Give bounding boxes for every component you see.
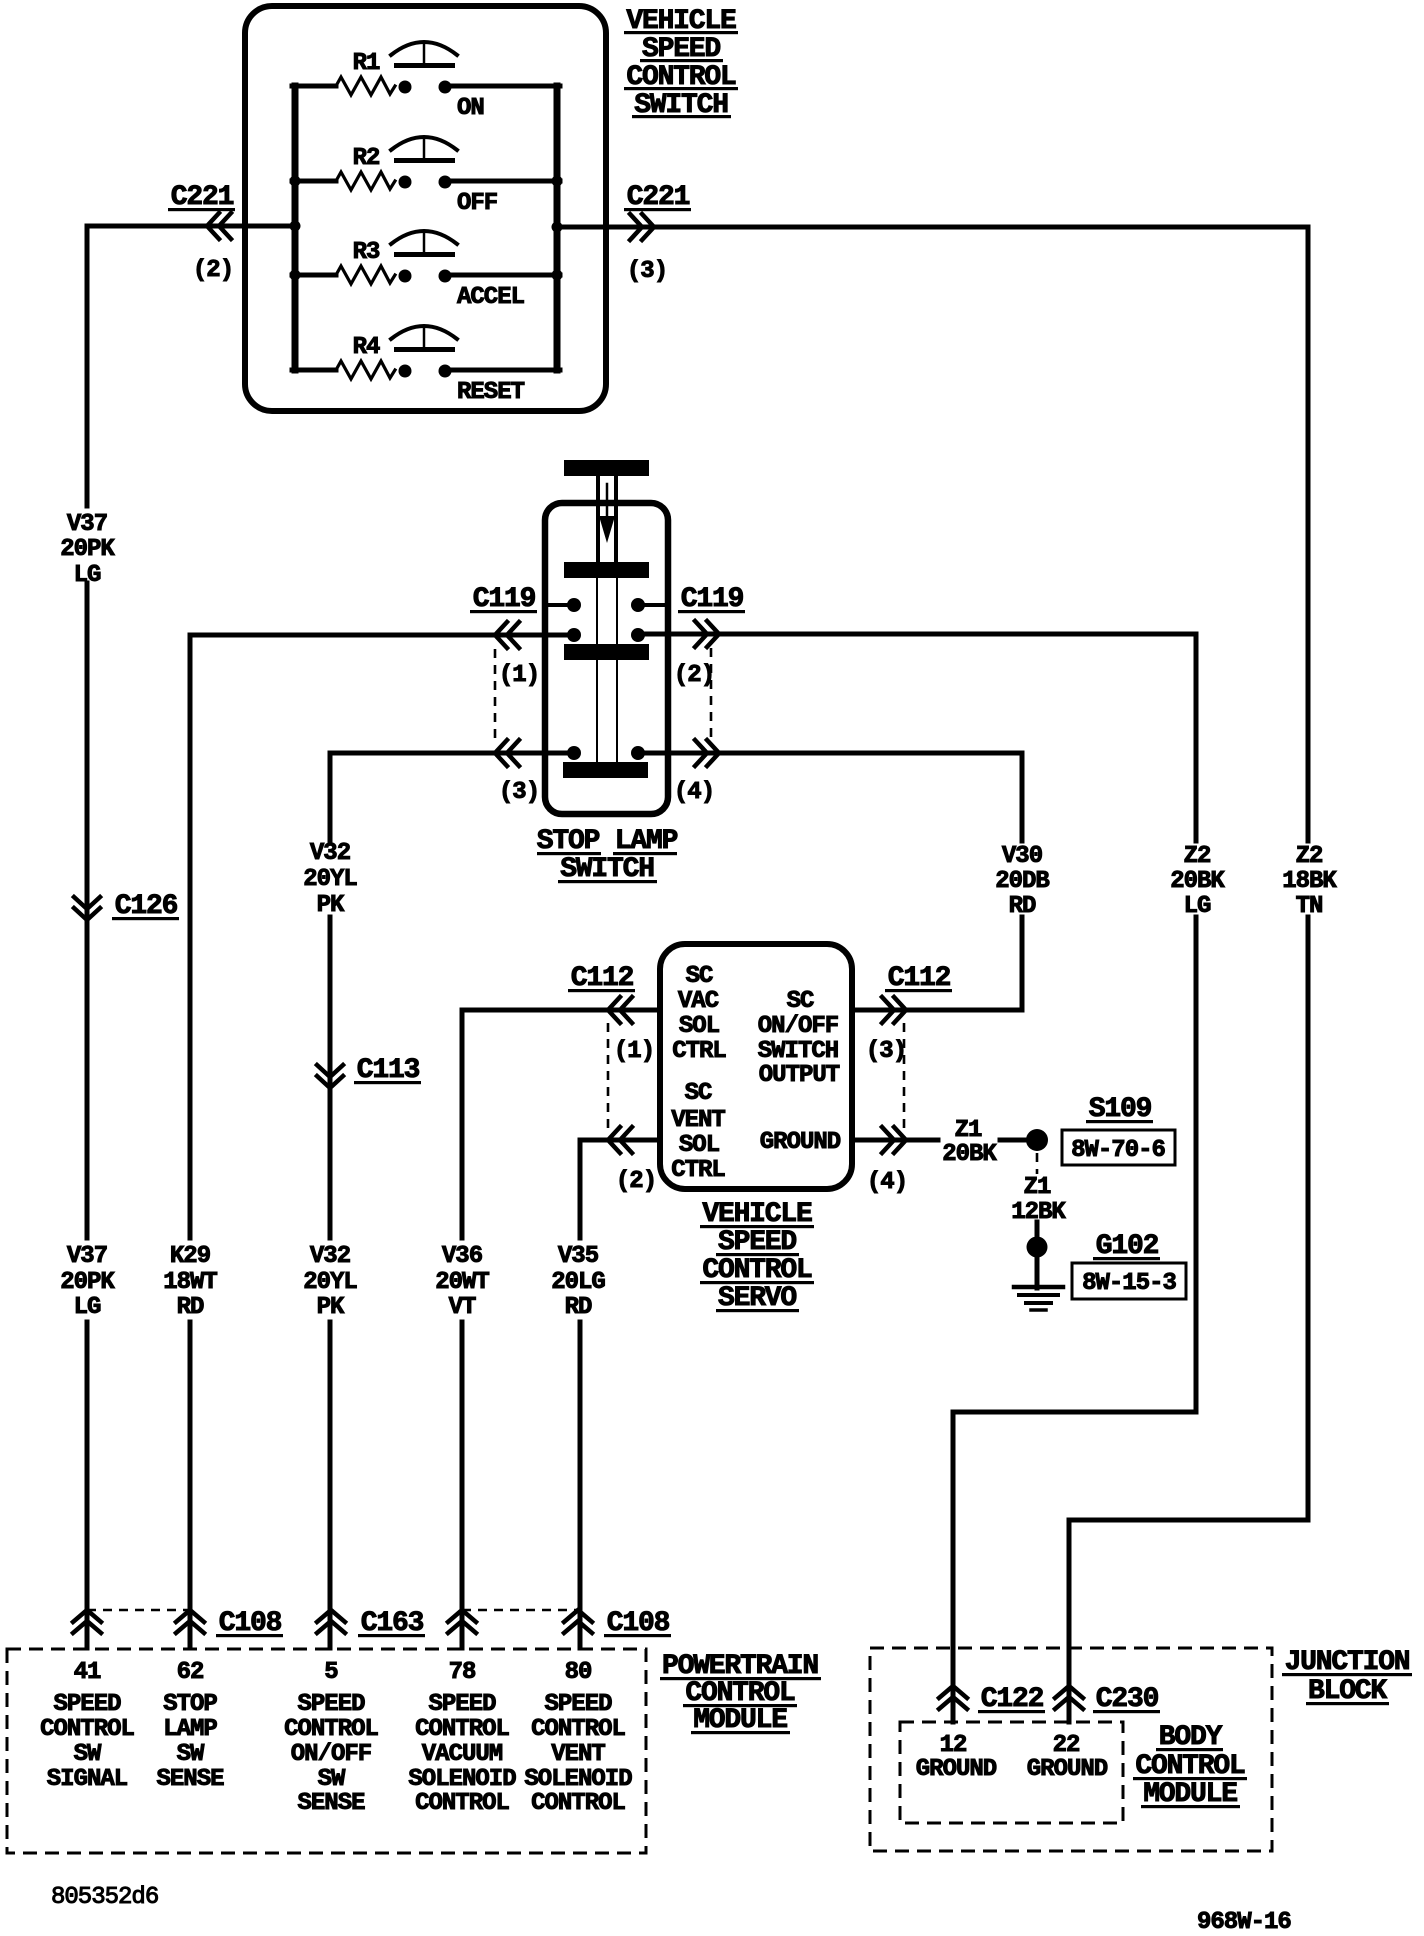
svg-text:(3): (3) — [499, 779, 539, 806]
label C119 left — [470, 584, 537, 615]
label pin 41 SPEED CONTROL SW SIGNAL — [40, 1659, 134, 1793]
connector chevrons pin 80 — [564, 1610, 592, 1633]
svg-text:VENT: VENT — [671, 1107, 725, 1134]
powertrain control module box — [7, 1649, 646, 1853]
svg-text:80: 80 — [565, 1659, 592, 1686]
wire R2 left — [292, 179, 336, 184]
svg-text:12: 12 — [940, 1732, 967, 1759]
label Z2 20BK LG — [1170, 843, 1225, 920]
wire V36 lower — [460, 1322, 465, 1648]
label G102 — [1093, 1231, 1160, 1262]
svg-text:SPEED: SPEED — [53, 1691, 121, 1718]
svg-text:GROUND: GROUND — [916, 1756, 997, 1783]
svg-text:(3): (3) — [627, 258, 667, 285]
svg-text:SOL: SOL — [679, 1132, 720, 1159]
label SC VAC SOL CTRL — [672, 963, 726, 1065]
switch OFF actuator — [391, 137, 457, 163]
svg-text:R3: R3 — [353, 239, 380, 266]
wire Z2 20BK horizontal — [645, 634, 1196, 841]
wire Z1 to splice — [1000, 1138, 1026, 1143]
label pin 78 SPEED CONTROL VACUUM SOLENOID CONTROL — [408, 1659, 516, 1817]
svg-text:SC: SC — [685, 1080, 712, 1107]
svg-text:(1): (1) — [614, 1038, 654, 1065]
svg-text:GROUND: GROUND — [760, 1129, 841, 1156]
svg-text:LAMP: LAMP — [163, 1716, 217, 1743]
wire V32 horizontal — [330, 751, 567, 756]
ground G102 symbol — [1014, 1287, 1063, 1310]
svg-text:SOLENOID: SOLENOID — [408, 1766, 516, 1793]
label C122 — [978, 1684, 1045, 1715]
label BODY CONTROL MODULE — [1133, 1722, 1247, 1810]
svg-text:RD: RD — [565, 1294, 592, 1321]
connector C112 (2) — [608, 1127, 656, 1195]
connector chevrons pin 5 — [317, 1610, 345, 1633]
stop lamp switch contact bar middle — [564, 644, 649, 660]
svg-text:V35: V35 — [558, 1243, 599, 1270]
svg-text:SPEED: SPEED — [428, 1691, 496, 1718]
connector chevrons pin 62 — [176, 1610, 204, 1633]
label pin 5 SPEED CONTROL ON/OFF SW SENSE — [284, 1659, 378, 1817]
svg-text:Z2: Z2 — [1296, 843, 1323, 870]
splice S109 — [1026, 1129, 1048, 1151]
svg-text:V32: V32 — [310, 840, 350, 867]
connector C126 — [74, 891, 179, 922]
svg-text:Z1: Z1 — [1024, 1174, 1051, 1201]
label Z1 12BK — [1011, 1174, 1066, 1226]
svg-text:62: 62 — [177, 1659, 204, 1686]
svg-text:SC: SC — [686, 963, 713, 990]
wire R2 right — [450, 179, 560, 184]
label SC ON/OFF SWITCH OUTPUT — [758, 988, 840, 1089]
wire Z1 to ground — [1035, 1222, 1040, 1288]
svg-text:SPEED: SPEED — [297, 1691, 365, 1718]
junction dots right bus — [552, 176, 563, 281]
svg-text:GROUND: GROUND — [1027, 1756, 1108, 1783]
label C108 — [216, 1608, 283, 1639]
svg-text:CONTROL: CONTROL — [284, 1716, 378, 1743]
svg-text:20WT: 20WT — [435, 1269, 489, 1296]
label SC VENT SOL CTRL — [671, 1080, 725, 1184]
svg-text:SOLENOID: SOLENOID — [524, 1766, 632, 1793]
label pin 22 GROUND — [1027, 1732, 1108, 1783]
label C112 right — [885, 963, 952, 994]
connector C119 (1)-(3) link — [494, 649, 497, 741]
svg-text:CONTROL: CONTROL — [415, 1790, 509, 1817]
wire K29 horizontal — [190, 633, 567, 638]
svg-text:SW: SW — [318, 1766, 346, 1793]
connector chevrons C122 — [939, 1686, 967, 1709]
svg-text:VENT: VENT — [551, 1741, 605, 1768]
wire V32 lower — [328, 1322, 333, 1648]
junction dots left bus — [290, 176, 301, 281]
wire R4 left — [292, 368, 336, 373]
svg-text:SW: SW — [74, 1741, 102, 1768]
svg-text:20BK: 20BK — [942, 1141, 997, 1168]
wire V37 middle — [85, 583, 90, 1238]
svg-text:805352d6: 805352d6 — [51, 1884, 158, 1911]
label C108 right — [604, 1608, 671, 1639]
wire R3 left — [292, 273, 336, 278]
connector C112 (3)-(4) link — [903, 1023, 906, 1128]
switch ON actuator — [391, 42, 457, 68]
label K29 18WT RD — [163, 1243, 217, 1321]
svg-text:CONTROL: CONTROL — [415, 1716, 509, 1743]
wire V36 vertical — [460, 1010, 465, 1238]
switch OFF contacts — [399, 176, 452, 189]
resistor R3 — [336, 239, 395, 284]
wire Z1 ground stub — [852, 1138, 938, 1143]
wire V32 vertical upper — [328, 753, 333, 841]
switch ON contacts — [399, 81, 452, 94]
connector C221 (2) — [168, 182, 235, 284]
junction block box — [870, 1648, 1272, 1851]
svg-text:Z2: Z2 — [1184, 843, 1211, 870]
wire V35 lower — [578, 1322, 583, 1648]
wire V37 upper — [85, 226, 90, 506]
svg-text:20LG: 20LG — [551, 1269, 605, 1296]
label VEHICLE SPEED CONTROL SWITCH — [624, 6, 738, 121]
wire V37 lower — [85, 1322, 90, 1648]
svg-text:ON/OFF: ON/OFF — [291, 1741, 371, 1768]
label Z2 18BK TN — [1282, 843, 1337, 920]
svg-text:8W-15-3: 8W-15-3 — [1082, 1270, 1176, 1297]
stop lamp switch plunger shaft — [598, 476, 616, 562]
svg-text:20YL: 20YL — [303, 1269, 357, 1296]
wire K29 lower — [188, 1322, 193, 1648]
svg-text:SOL: SOL — [679, 1013, 720, 1040]
svg-text:5: 5 — [324, 1659, 338, 1686]
vehicle speed control servo box — [660, 944, 852, 1189]
resistor R4 — [336, 334, 395, 379]
wire K29 vertical — [188, 635, 193, 1238]
label V37 20PK LG (lower) — [60, 1243, 115, 1321]
vehicle speed control switch box — [245, 6, 606, 411]
svg-text:OFF: OFF — [457, 190, 497, 217]
label V32 20YL PK (lower) — [303, 1243, 357, 1321]
svg-text:SENSE: SENSE — [297, 1790, 365, 1817]
svg-text:8W-70-6: 8W-70-6 — [1071, 1137, 1165, 1164]
label POWERTRAIN CONTROL MODULE — [660, 1651, 821, 1736]
connector C119 (4) — [674, 740, 719, 806]
connector C112 (1) — [608, 997, 654, 1065]
svg-text:PK: PK — [317, 1294, 345, 1321]
svg-text:18BK: 18BK — [1282, 868, 1337, 895]
reference box 8W-15-3 — [1072, 1263, 1186, 1299]
label C163 — [358, 1608, 425, 1639]
wire V35 vertical — [578, 1140, 583, 1238]
stop lamp switch contact bar lower — [563, 762, 648, 778]
svg-text:LG: LG — [74, 1294, 101, 1321]
wire R1 right — [450, 84, 560, 89]
wire V32 vertical middle — [328, 917, 333, 1238]
svg-text:20PK: 20PK — [60, 1269, 115, 1296]
svg-text:ACCEL: ACCEL — [457, 284, 525, 311]
svg-text:V36: V36 — [442, 1243, 483, 1270]
svg-text:20YL: 20YL — [303, 866, 357, 893]
label C230 — [1093, 1684, 1160, 1715]
connector C108 left dashes — [87, 1609, 190, 1612]
svg-text:SENSE: SENSE — [156, 1766, 224, 1793]
wire V30 vertical — [1020, 917, 1025, 1010]
svg-text:(1): (1) — [499, 662, 539, 689]
wire Z1 12BK dashed stub — [1036, 1153, 1039, 1174]
switch ACCEL contacts — [399, 270, 452, 283]
svg-text:V32: V32 — [310, 1243, 350, 1270]
connector chevrons C230 — [1055, 1686, 1083, 1709]
svg-text:V30: V30 — [1002, 843, 1043, 870]
connector C119 (2)-(4) link — [710, 648, 713, 741]
resistor R2 — [336, 145, 395, 190]
svg-text:RD: RD — [177, 1294, 204, 1321]
svg-text:CONTROL: CONTROL — [531, 1716, 625, 1743]
wire to C221 (2) — [87, 224, 295, 229]
svg-text:V37: V37 — [67, 1243, 107, 1270]
stop lamp switch contacts — [567, 598, 645, 760]
label S109 — [1086, 1094, 1153, 1125]
label Z1 20BK — [942, 1117, 997, 1168]
svg-text:(2): (2) — [193, 257, 233, 284]
svg-text:SW: SW — [177, 1741, 205, 1768]
wire V30 horizontal — [645, 753, 1022, 841]
label V37 20PK LG (upper) — [60, 511, 115, 589]
connector chevrons pin 41 — [73, 1610, 101, 1633]
label pin 80 SPEED CONTROL VENT SOLENOID CONTROL — [524, 1659, 632, 1817]
stop lamp switch stem — [597, 578, 617, 763]
svg-text:R2: R2 — [353, 145, 380, 172]
svg-text:K29: K29 — [170, 1243, 210, 1270]
connector C112 (3) — [866, 997, 906, 1065]
label JUNCTION BLOCK — [1282, 1647, 1412, 1707]
connector C113 — [317, 1055, 421, 1088]
svg-text:R4: R4 — [353, 334, 380, 361]
splice G102 — [1027, 1237, 1048, 1258]
wire SC on/off switch output — [852, 917, 1022, 1010]
svg-text:18WT: 18WT — [163, 1269, 217, 1296]
label V35 20LG RD — [551, 1243, 605, 1321]
svg-text:VAC: VAC — [678, 988, 719, 1015]
label C119 right — [678, 584, 745, 615]
svg-text:20BK: 20BK — [1170, 868, 1225, 895]
svg-text:VACUUM: VACUUM — [422, 1741, 503, 1768]
connector C221 (3) — [624, 182, 691, 285]
svg-text:(2): (2) — [674, 662, 714, 689]
svg-text:STOP: STOP — [163, 1691, 217, 1718]
label VEHICLE SPEED CONTROL SERVO — [700, 1199, 814, 1314]
svg-text:ON: ON — [457, 95, 484, 122]
label pin 62 STOP LAMP SW SENSE — [156, 1659, 224, 1793]
svg-text:V37: V37 — [67, 511, 107, 538]
stop lamp switch contact stubs — [548, 603, 664, 607]
connector chevrons pin 78 — [448, 1610, 476, 1633]
label V32 20YL PK (upper) — [303, 840, 357, 919]
wire V36 horizontal — [462, 1008, 660, 1013]
label V36 20WT VT — [435, 1243, 489, 1321]
svg-text:CTRL: CTRL — [671, 1157, 725, 1184]
wire Z2 20BK to junction block — [953, 917, 1196, 1722]
svg-text:78: 78 — [449, 1659, 476, 1686]
stop lamp switch box — [545, 503, 668, 814]
svg-text:ON/OFF: ON/OFF — [758, 1013, 838, 1040]
svg-text:SC: SC — [787, 988, 814, 1015]
svg-text:(2): (2) — [616, 1168, 656, 1195]
svg-text:20PK: 20PK — [60, 536, 115, 563]
svg-text:(4): (4) — [867, 1169, 907, 1196]
label STOP LAMP SWITCH — [537, 826, 678, 885]
resistor R1 — [336, 50, 395, 95]
svg-text:41: 41 — [74, 1659, 101, 1686]
svg-text:SIGNAL: SIGNAL — [47, 1766, 128, 1793]
switch ACCEL actuator — [391, 231, 457, 257]
connector C119 (1) — [495, 622, 539, 689]
wire R3 right — [450, 273, 560, 278]
reference box 8W-70-6 — [1062, 1130, 1175, 1165]
wire Z2 18BK to junction block — [1069, 917, 1308, 1722]
svg-text:CONTROL: CONTROL — [531, 1790, 625, 1817]
switch RESET contacts — [399, 365, 452, 378]
svg-text:(3): (3) — [866, 1038, 906, 1065]
wire left bus — [292, 86, 299, 370]
svg-text:VT: VT — [449, 1294, 476, 1321]
connector C112 (1)-(2) link — [607, 1023, 610, 1128]
switch RESET actuator — [391, 326, 457, 352]
label C112 left — [568, 963, 635, 994]
wire right bus — [554, 86, 561, 370]
label V30 20DB RD — [995, 843, 1049, 920]
wire R4 right — [450, 368, 560, 373]
stop lamp switch contact bar upper — [564, 562, 649, 578]
svg-text:SWITCH: SWITCH — [758, 1038, 838, 1065]
svg-text:968W-16: 968W-16 — [1197, 1909, 1291, 1936]
svg-text:CONTROL: CONTROL — [40, 1716, 134, 1743]
body control module box — [900, 1722, 1123, 1823]
connector C119 (3) — [495, 740, 539, 806]
svg-text:CTRL: CTRL — [672, 1038, 726, 1065]
svg-text:Z1: Z1 — [955, 1117, 982, 1144]
label pin 12 GROUND — [916, 1732, 997, 1783]
svg-text:22: 22 — [1053, 1732, 1080, 1759]
svg-text:R1: R1 — [353, 50, 380, 77]
connector C108 right dashes — [462, 1609, 578, 1612]
stop lamp switch plunger cap — [564, 460, 649, 476]
svg-text:OUTPUT: OUTPUT — [759, 1062, 840, 1089]
connector C119 (2) — [674, 621, 719, 689]
connector C112 (4) — [867, 1127, 907, 1196]
svg-text:SPEED: SPEED — [544, 1691, 612, 1718]
wire V35 horizontal — [580, 1138, 660, 1143]
svg-text:RESET: RESET — [457, 379, 525, 406]
wire R1 left — [292, 84, 336, 89]
svg-text:20DB: 20DB — [995, 868, 1049, 895]
stop lamp switch plunger arrow — [599, 484, 615, 543]
wire C221 (3) to Z2 corner — [557, 227, 1308, 841]
svg-text:(4): (4) — [674, 779, 714, 806]
